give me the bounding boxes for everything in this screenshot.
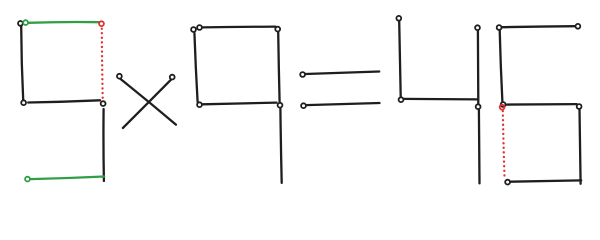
digit 5: lower-right vertical matchstick: [102, 109, 105, 181]
digit 4: lower-right vertical matchstick: [478, 110, 481, 184]
digit 5: bottom horizontal matchstick (green, added): [30, 177, 104, 180]
digit 9: upper-right vertical matchstick: [278, 32, 279, 102]
digit 5: endpoint dot top-left black: [18, 21, 23, 26]
digit 4: middle horizontal matchstick: [404, 98, 477, 101]
digit 5: endpoint dot top-left green: [23, 20, 28, 25]
digit 6: bottom horizontal matchstick: [510, 180, 581, 181]
equals sign: endpoint dot top: [300, 72, 305, 77]
digit 6: endpoint dot mid-right: [577, 104, 582, 109]
multiply sign: NE-SW stroke: [123, 80, 171, 128]
multiply sign: endpoint dot right: [170, 75, 175, 80]
multiply sign: endpoint dot left: [117, 74, 122, 79]
digit 5: endpoint dot middle-right black: [101, 101, 106, 106]
equals sign: endpoint dot bottom: [301, 103, 306, 108]
digit 9: endpoint dot bottom-left: [197, 102, 202, 107]
digit 6: upper-left vertical matchstick: [500, 30, 503, 102]
digit 5: left vertical matchstick: [21, 26, 23, 100]
digit 6: top horizontal matchstick: [502, 26, 576, 27]
digit 5: endpoint dot bottom-left green: [25, 177, 30, 182]
digit 9: lower-right vertical matchstick: [280, 108, 281, 183]
digit 6: endpoint dot top-right: [576, 24, 581, 29]
digit 6: endpoint dot top-left: [497, 25, 502, 30]
digit 6: lower-left matchstick removed (red dotted): [503, 111, 505, 176]
digit 5: endpoint dot middle-left black: [21, 100, 26, 105]
digit 9: endpoint dot top-left outer: [191, 27, 196, 32]
digit 4: endpoint dot mid-right junction: [476, 104, 481, 109]
digit 6: endpoint dot mid-left black: [501, 102, 506, 107]
digit 5: endpoint dot top-right red: [99, 21, 104, 26]
digit 4: endpoint dot middle-left: [399, 97, 404, 102]
digit 4: endpoint dot top-right: [475, 25, 480, 30]
digit 5: middle horizontal matchstick: [28, 100, 100, 102]
digit 9: top horizontal matchstick: [203, 25, 276, 28]
digit 6: middle horizontal matchstick: [506, 103, 577, 106]
digit 9: endpoint dot top-right: [275, 27, 280, 32]
equals sign: top bar: [305, 72, 379, 75]
digit 5: top horizontal matchstick (green, added): [28, 21, 101, 24]
digit 6: endpoint dot mid-left red: [500, 105, 505, 110]
digit 9: endpoint dot bottom-right: [278, 103, 283, 108]
digit 9: endpoint dot top-left inner: [197, 25, 202, 30]
digit 6: lower-right vertical matchstick: [580, 109, 581, 183]
digit 9: left vertical matchstick: [194, 32, 197, 101]
digit 4: endpoint dot top-left: [396, 16, 401, 21]
digit 4: upper-right vertical matchstick: [477, 31, 480, 104]
digit 4: left vertical matchstick: [399, 21, 401, 97]
digit 5: upper-right matchstick removed (red dotted): [101, 29, 104, 98]
digit 9: middle horizontal matchstick: [203, 103, 277, 105]
multiply sign: NW-SE stroke: [120, 79, 175, 125]
equals sign: bottom bar: [306, 103, 379, 105]
digit 6: endpoint dot bottom-left: [505, 180, 510, 185]
